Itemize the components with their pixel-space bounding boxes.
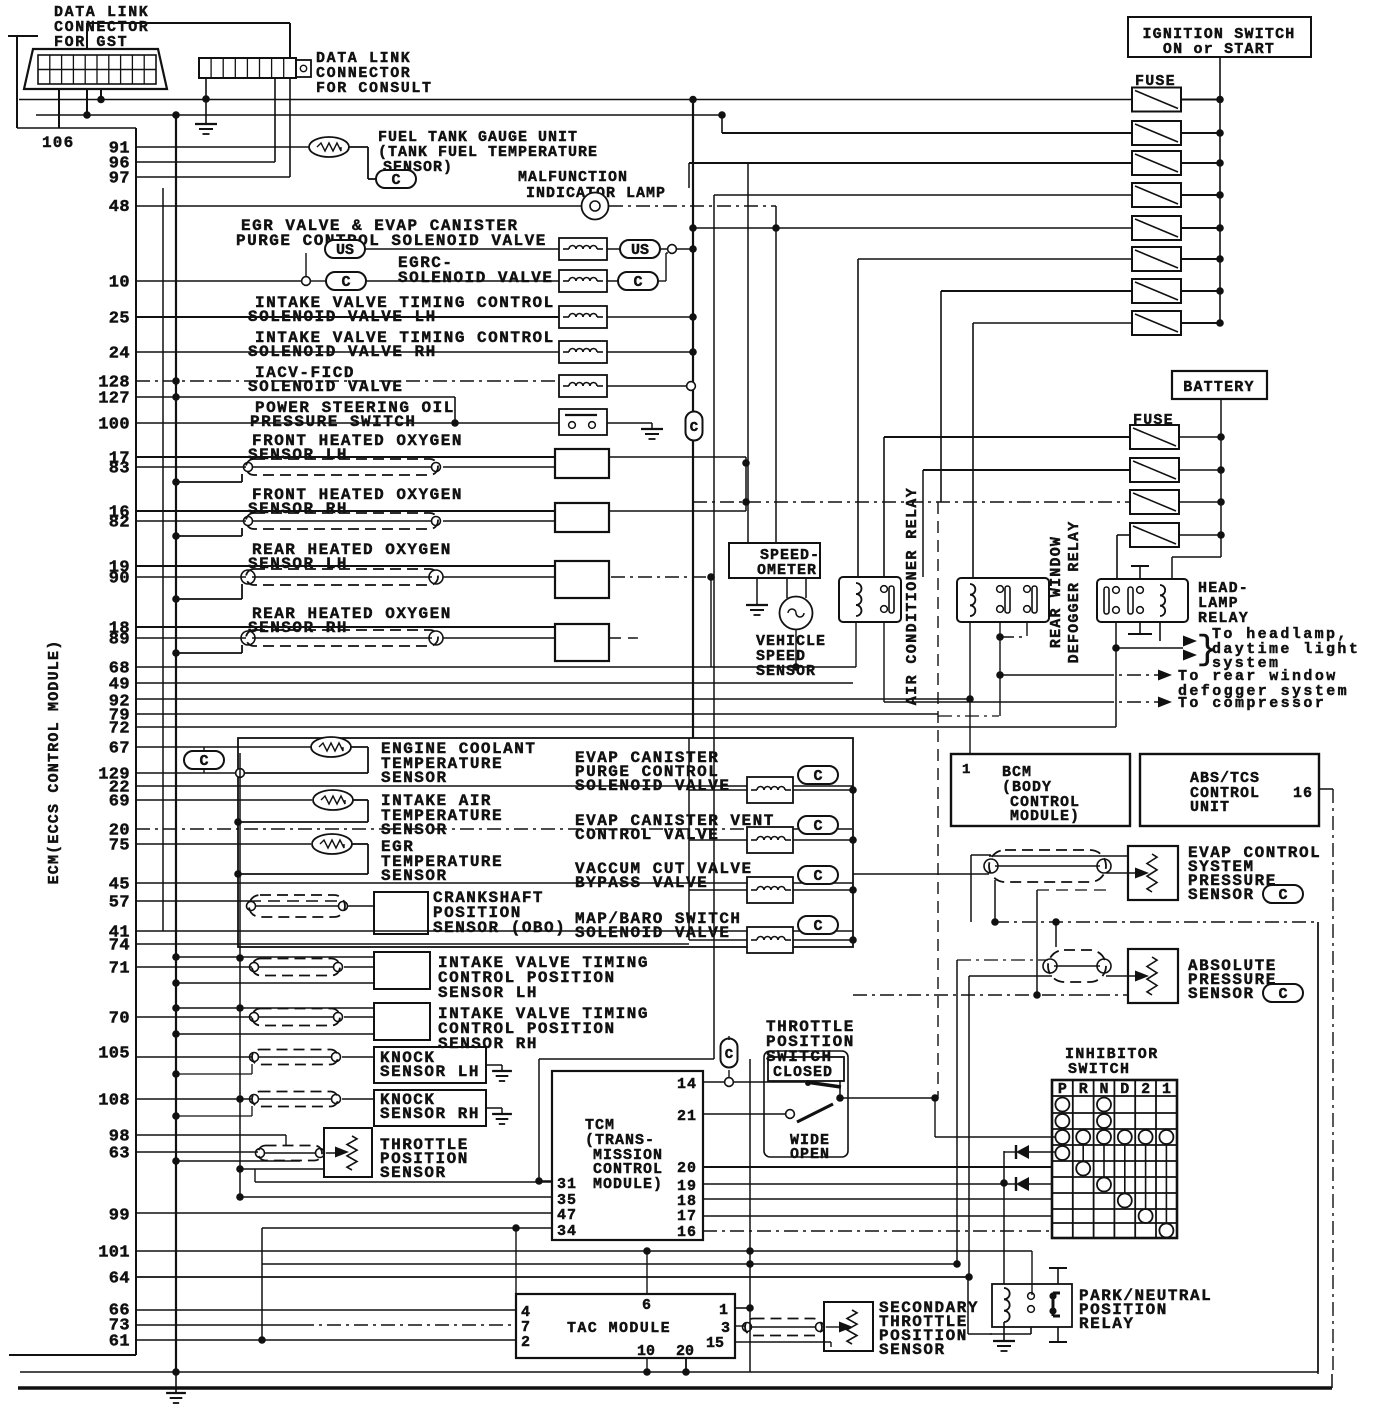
wire fuse BF2 left: [923, 469, 1130, 471]
wire US right to node: [660, 248, 668, 250]
wire GST to consult bus: [87, 22, 290, 24]
svg-text:SENSOR LH: SENSOR LH: [248, 446, 348, 464]
IVT RH shield: [252, 1009, 340, 1026]
svg-text:1: 1: [719, 1302, 728, 1319]
svg-text:45: 45: [109, 876, 130, 895]
inhibitor switch contacts R: [1076, 1130, 1090, 1144]
headlamp relay contact 1: [1104, 587, 1109, 614]
air conditioner relay coil: [856, 583, 862, 594]
svg-text:US: US: [336, 242, 354, 259]
connector C evap pressure sensor: [1263, 885, 1303, 903]
svg-text:OMETER: OMETER: [757, 562, 817, 579]
svg-text:TAC MODULE: TAC MODULE: [567, 1320, 671, 1337]
svg-text:106: 106: [42, 134, 74, 152]
svg-text:US: US: [631, 242, 649, 259]
fuse F5: [1132, 216, 1181, 240]
svg-text:C: C: [199, 753, 208, 770]
throttle position switch box: [764, 1051, 848, 1157]
shielded cable SENSOR LH: [246, 569, 438, 585]
park relay pins: [1028, 1293, 1035, 1300]
svg-text:SENSOR LH: SENSOR LH: [380, 1063, 480, 1081]
svg-text:SENSOR (OBO): SENSOR (OBO): [433, 919, 566, 937]
wire fuse F7 left: [941, 290, 1132, 292]
svg-text:C: C: [813, 918, 822, 935]
wire pin 25: [136, 316, 559, 318]
connector US right: [620, 240, 660, 258]
wire EGRC solenoid to C right: [607, 280, 618, 282]
wire into shield: [853, 873, 989, 875]
wire pin top SENSOR LH: [136, 565, 555, 567]
svg-text:1: 1: [1162, 1081, 1171, 1098]
data link connector for GST: [24, 49, 167, 89]
wire ground hook SENSOR RH: [176, 652, 242, 654]
wire pin 57: [136, 900, 249, 902]
svg-text:82: 82: [109, 514, 130, 533]
wire valve 2 right: [793, 839, 853, 841]
svg-text:1: 1: [962, 762, 971, 778]
TAC to secondary TPS shield: [735, 1325, 745, 1327]
rear window defogger relay box: [957, 578, 1049, 622]
svg-text:RELAY: RELAY: [1198, 610, 1249, 627]
svg-text:69: 69: [109, 793, 130, 812]
wire pin 20: [136, 828, 853, 830]
TPS shield: [258, 1146, 322, 1161]
svg-text:2: 2: [521, 1334, 530, 1351]
park relay contact: [1052, 1293, 1055, 1316]
wire pin to knock RH: [136, 1098, 252, 1100]
right border solid: [1317, 922, 1319, 1372]
svg-text:C: C: [690, 420, 699, 436]
wire right margin dash bus: [1332, 789, 1334, 1374]
svg-text:57: 57: [109, 894, 130, 913]
svg-text:R: R: [1079, 1081, 1088, 1098]
svg-text:71: 71: [109, 960, 130, 979]
park relay T-bar above: [1057, 1268, 1059, 1284]
wire TCM 35: [240, 1196, 552, 1198]
fuse BF3: [1130, 490, 1179, 514]
wire fuse BF2 right: [1179, 469, 1221, 471]
wire pin 75: [136, 843, 311, 845]
defogger relay contact 1: [997, 586, 1004, 593]
throttle position sensor box: [324, 1128, 372, 1177]
wide open contact: [797, 1104, 833, 1122]
svg-text:48: 48: [109, 198, 130, 217]
ground bottom left: [175, 1372, 177, 1393]
wire fuse F3 left: [689, 162, 1132, 164]
wire switch output: [840, 1097, 935, 1099]
wire US to solenoid: [365, 248, 559, 250]
solenoid valve EVAP row 1: [747, 777, 793, 803]
inhibitor switch grid: [1051, 1080, 1053, 1238]
wire diode1 feed: [1003, 1151, 1005, 1284]
bus wire top row 2: [36, 114, 722, 116]
malfunction indicator lamp: [582, 193, 609, 220]
wire pin 64 long: [136, 1276, 968, 1278]
wire valve 4 right: [793, 939, 853, 941]
wire rear O2 riser: [710, 577, 712, 667]
wire fuse F8 right: [1181, 322, 1220, 324]
fuse F1: [1132, 88, 1181, 112]
wire pin 41: [136, 930, 853, 932]
TAC module box: [516, 1294, 735, 1358]
wire fuse F4 left: [714, 194, 1132, 196]
svg-text:P: P: [1058, 1081, 1067, 1098]
wire front O2 LH heater: [609, 456, 746, 458]
svg-text:C: C: [633, 274, 642, 291]
wire AC contact top from fuse: [883, 437, 885, 577]
crankshaft position sensor box: [374, 892, 428, 934]
knock sensor RH ground: [486, 1107, 502, 1109]
wire evap sensor feed: [136, 873, 989, 875]
park relay ground: [1003, 1322, 1005, 1341]
svg-text:90: 90: [109, 570, 130, 589]
svg-text:SENSOR: SENSOR: [381, 769, 448, 787]
svg-text:16: 16: [1293, 785, 1313, 802]
bottom bus wire 2 (border): [18, 1386, 1332, 1390]
wire knock RH shield drain: [178, 1115, 252, 1117]
solenoid valve EGR/EVAP purge: [559, 238, 607, 260]
closed contact bar: [806, 1082, 841, 1087]
svg-text:REAR WINDOW: REAR WINDOW: [1048, 536, 1065, 648]
svg-text:21: 21: [677, 1108, 697, 1125]
TCM box: [552, 1071, 703, 1240]
wire AC coil bottom: [855, 622, 857, 667]
wire valve 3 right: [793, 889, 853, 891]
wire defogger contact down: [999, 622, 1001, 716]
solenoid valve EVAP row 2: [747, 827, 793, 853]
wire fuse F8 left: [973, 322, 1132, 324]
connector C EVAP row 1: [798, 766, 838, 784]
BCM body control module box: [951, 754, 1130, 826]
wire pin 72: [136, 726, 1116, 728]
oxygen sensor SENSOR RH: [555, 503, 609, 532]
svg-text:C: C: [813, 868, 822, 885]
wire pin 73 to TAC 7: [136, 1324, 300, 1326]
headlamp relay contact 2: [1128, 587, 1133, 614]
wire dashdot y995: [853, 994, 1128, 996]
wire knock LH shield drain: [178, 1073, 252, 1075]
closed contact label: [768, 1057, 844, 1081]
wire pin 101 long: [136, 1250, 1032, 1252]
wire tank sensor loop: [349, 146, 368, 148]
vehicle speed sensor: [780, 597, 813, 630]
knock sensor LH ground: [486, 1064, 502, 1066]
wire to park relay pins: [1031, 1251, 1033, 1295]
wire vertical bus x240: [239, 753, 241, 1197]
wire TPS lower: [240, 1168, 324, 1170]
svg-text:To compressor: To compressor: [1178, 695, 1326, 712]
svg-text:D: D: [1120, 1081, 1129, 1098]
fuse F3: [1132, 151, 1181, 175]
svg-text:MALFUNCTION: MALFUNCTION: [518, 169, 628, 186]
wire pin 24: [136, 351, 559, 353]
svg-text:BYPASS VALVE: BYPASS VALVE: [575, 874, 708, 892]
knock sensor RH shield: [252, 1092, 338, 1107]
svg-text:DEFOGGER RELAY: DEFOGGER RELAY: [1066, 521, 1083, 664]
wire fuse F5 right: [1181, 227, 1220, 229]
svg-text:OPEN: OPEN: [790, 1146, 830, 1163]
park relay coil: [1004, 1288, 1010, 1299]
wire C right riser: [658, 280, 666, 282]
wire valve 1 left: [689, 789, 747, 791]
EGR temperature sensor: [312, 834, 352, 854]
wire pin 67: [136, 746, 311, 748]
IVT LH shield: [252, 959, 340, 976]
svg-text:MODULE): MODULE): [593, 1176, 663, 1193]
IVT position sensor LH box: [374, 952, 430, 989]
wire absolute sensor feed: [957, 959, 1048, 961]
battery box: [1172, 371, 1267, 399]
svg-text:47: 47: [557, 1207, 577, 1224]
wire EGR loop: [352, 843, 368, 845]
wire pin 96: [136, 161, 275, 163]
ECM(ECCS CONTROL MODULE) boundary: [135, 128, 137, 1355]
wire fuse F2 right: [1181, 132, 1220, 134]
svg-text:97: 97: [109, 170, 130, 189]
wire fuse BF3 right: [1179, 501, 1221, 503]
intake air temperature sensor: [313, 790, 353, 810]
battery bus: [1220, 399, 1222, 557]
evap pressure shielded cable: [989, 850, 1106, 882]
knock sensor RH box: [374, 1090, 486, 1126]
svg-text:SENSOR: SENSOR: [1188, 886, 1255, 904]
svg-text:101: 101: [98, 1244, 130, 1263]
wire y1264: [262, 1263, 957, 1265]
absolute pressure shielded cable: [1048, 950, 1106, 982]
IVT RH wires: [178, 1007, 374, 1009]
solenoid valve EGRC: [559, 270, 607, 292]
svg-text:61: 61: [109, 1333, 130, 1352]
ABS/TCS control unit box: [1140, 754, 1319, 826]
svg-text:70: 70: [109, 1010, 130, 1029]
tank fuel temperature sensor: [309, 137, 349, 157]
wire fuse F1 right: [1181, 99, 1220, 101]
bus wire top row 1: [19, 99, 1132, 101]
wire pin to IVT LH: [136, 966, 252, 968]
wire shield to sensor SENSOR LH: [443, 466, 555, 468]
wire C to EGRC solenoid: [366, 280, 559, 282]
wire pin 48 to MIL: [136, 205, 582, 207]
svg-text:SWITCH: SWITCH: [1068, 1061, 1130, 1078]
wire pin 79: [136, 713, 938, 715]
wire vertical bus x262: [261, 1228, 263, 1340]
IVT position sensor RH box: [374, 1003, 430, 1040]
wire O2 heater riser: [745, 457, 747, 511]
wire pin 10: [136, 280, 302, 282]
wire fuse BF4 drop to headlamp relay: [1116, 535, 1118, 579]
shielded cable SENSOR RH: [246, 513, 438, 529]
data link connector for CONSULT: [199, 58, 296, 78]
connector C EVAP row 3: [798, 866, 838, 884]
solenoid valve IACV-FICD: [559, 375, 607, 397]
connector US left: [325, 240, 365, 258]
wire GST top feed: [8, 35, 38, 37]
park/neutral position relay box: [992, 1284, 1072, 1327]
inhibitor switch contacts 2: [1139, 1130, 1153, 1144]
svg-text:C: C: [1278, 986, 1287, 1003]
knock sensor LH shield: [252, 1050, 338, 1065]
wire valve 4 left: [689, 939, 747, 941]
wire CONSULT pin downleads: [205, 78, 207, 124]
fuse F7: [1132, 279, 1181, 303]
svg-text:SENSOR: SENSOR: [380, 1164, 447, 1182]
fuse F4: [1132, 183, 1181, 207]
wire pin 45: [136, 882, 853, 884]
wire TCM 31 feed: [535, 1177, 543, 1185]
wire absolute shield top feed: [1055, 922, 1057, 947]
svg-text:RELAY: RELAY: [1079, 1315, 1135, 1333]
connector C tank sensor: [376, 170, 416, 188]
svg-text:31: 31: [557, 1176, 577, 1193]
svg-text:16: 16: [677, 1224, 697, 1241]
wire pin top SENSOR LH: [136, 456, 555, 458]
wire vertical bus x163: [162, 188, 164, 931]
svg-text:PURGE CONTROL SOLENOID VALVE: PURGE CONTROL SOLENOID VALVE: [236, 232, 547, 250]
wire US drop: [305, 253, 307, 277]
wire TCM 18 to inhibitor: [703, 1198, 1052, 1200]
oxygen sensor SENSOR LH: [555, 449, 609, 478]
wire fuse F5 left: [693, 227, 1132, 229]
ignition bus: [1219, 57, 1221, 323]
wire TAC 6 feed: [646, 1251, 648, 1294]
svg-text:127: 127: [98, 390, 130, 409]
wire fuse BF4 right: [1179, 534, 1221, 536]
svg-text:83: 83: [109, 460, 130, 479]
wire absolute sensor signal drop: [968, 976, 970, 1277]
oxygen sensor SENSOR RH: [555, 624, 609, 661]
fuse BF1: [1130, 425, 1179, 449]
svg-text:SENSOR LH: SENSOR LH: [248, 555, 348, 573]
svg-text:SENSOR: SENSOR: [1188, 985, 1255, 1003]
to compressor arrow: [884, 701, 1100, 703]
wire shield drain down: [994, 880, 996, 922]
ignition switch box: [1128, 17, 1311, 57]
wire switch to ground: [607, 422, 652, 424]
bottom bus wire 1: [20, 1371, 1318, 1373]
to rear window defogger arrow: [1000, 674, 1100, 676]
shielded cable SENSOR RH: [246, 630, 438, 646]
wire pin 61 to TAC 2: [136, 1339, 516, 1341]
wire pin 127: [136, 396, 455, 398]
wire pin 128: [136, 380, 559, 382]
svg-text:20: 20: [677, 1160, 697, 1177]
vehicle speed sensor stubs: [786, 578, 788, 598]
shielded cable SENSOR LH: [246, 459, 438, 475]
wire 100 riser: [454, 397, 456, 423]
wire switch to inhibitor row1: [935, 1136, 1056, 1138]
wire riser top: [539, 1058, 714, 1060]
svg-text:17: 17: [677, 1208, 697, 1225]
diode D1: [1029, 1151, 1056, 1153]
headlamp relay box: [1097, 579, 1188, 622]
speedometer box: [729, 543, 820, 578]
wire node to C oval: [310, 280, 326, 282]
wire TAC 1: [735, 1307, 750, 1309]
wire vertical bus x748 to speedometer: [747, 163, 749, 543]
wire IACV to bus: [607, 385, 687, 387]
wire pin to knock LH: [136, 1056, 252, 1058]
svg-text:72: 72: [109, 720, 130, 739]
svg-text:34: 34: [557, 1223, 577, 1240]
svg-text:UNIT: UNIT: [1190, 799, 1230, 816]
wire vertical bus x750 lower: [749, 1059, 751, 1372]
wire pin 74: [136, 943, 689, 945]
wire vertical bus x693: [692, 100, 694, 739]
wire absolute drain: [956, 960, 958, 1264]
svg-text:6: 6: [642, 1297, 651, 1314]
power steering oil pressure switch: [559, 409, 607, 435]
wire valve 2 left: [689, 839, 747, 841]
wire evap sensor left bracket: [970, 855, 972, 922]
svg-text:MODULE): MODULE): [1010, 808, 1080, 825]
wire evap to absolute drop: [1036, 890, 1038, 995]
wire TCM 21 to switch: [703, 1113, 786, 1115]
inhibitor switch contacts N: [1097, 1098, 1111, 1112]
wire shield to sensor SENSOR LH: [443, 576, 555, 578]
svg-text:24: 24: [109, 345, 130, 364]
svg-text:SOLENOID VALVE: SOLENOID VALVE: [398, 269, 553, 287]
park relay T-bar below: [1057, 1327, 1059, 1342]
fuse F8: [1132, 311, 1181, 335]
defogger relay contact 2: [1024, 586, 1031, 593]
wire TCM 34: [262, 1227, 552, 1229]
wire pin 68: [136, 666, 856, 668]
wire vertical bus x689 (solenoid supply): [688, 163, 690, 188]
wire TCM 20 to inhibitor: [703, 1166, 1052, 1168]
engine coolant temperature sensor: [311, 737, 351, 757]
wire switch riser to inhibitor: [934, 1098, 936, 1137]
wire TAC 15: [735, 1341, 831, 1343]
diode D2: [1016, 1177, 1029, 1191]
wire AC contact to compressor: [883, 622, 885, 702]
wire pin to IVT RH: [136, 1016, 252, 1018]
wire battery bus to headlamp relay: [1172, 556, 1221, 558]
svg-text:C: C: [1278, 887, 1287, 904]
svg-text:AIR CONDITIONER RELAY: AIR CONDITIONER RELAY: [904, 487, 921, 705]
air conditioner relay box: [839, 577, 901, 622]
svg-text:C: C: [341, 274, 350, 291]
evap pressure sensor box: [1128, 846, 1178, 900]
wire TCM 14 to switch: [703, 1081, 724, 1083]
wire fuse F7 drop: [940, 291, 942, 502]
bottom right border risers: [1331, 1374, 1333, 1388]
svg-text:25: 25: [109, 310, 130, 329]
wire MIL to F5 riser: [609, 205, 776, 207]
wire ground hook SENSOR LH: [176, 481, 242, 483]
svg-text:C: C: [813, 818, 822, 835]
svg-text:FOR CONSULT: FOR CONSULT: [316, 80, 433, 97]
wire solenoid to US right: [607, 248, 620, 250]
wire CONSULT top feed: [289, 23, 291, 58]
headlamp relay coil: [1160, 585, 1165, 595]
wire IVT RH to bus: [607, 351, 693, 353]
svg-text:99: 99: [109, 1207, 130, 1226]
svg-text:SENSOR RH: SENSOR RH: [438, 1035, 538, 1053]
svg-text:CONTROL VALVE: CONTROL VALVE: [575, 826, 719, 844]
wire right border riser: [1317, 922, 1319, 1374]
svg-text:20: 20: [676, 1343, 694, 1360]
secondary throttle position sensor box: [824, 1302, 873, 1351]
wire VSS down: [795, 630, 797, 667]
wire ground hook SENSOR LH: [176, 598, 242, 600]
wire shield to sensor SENSOR RH: [443, 637, 555, 639]
fuse BF2: [1130, 458, 1179, 482]
fuse F6: [1132, 247, 1181, 271]
wire pin 129: [136, 772, 238, 774]
wire ground hook SENSOR RH: [176, 535, 242, 537]
svg-text:SENSOR: SENSOR: [756, 663, 816, 680]
wire TCM 19 to diode2: [703, 1183, 1016, 1185]
